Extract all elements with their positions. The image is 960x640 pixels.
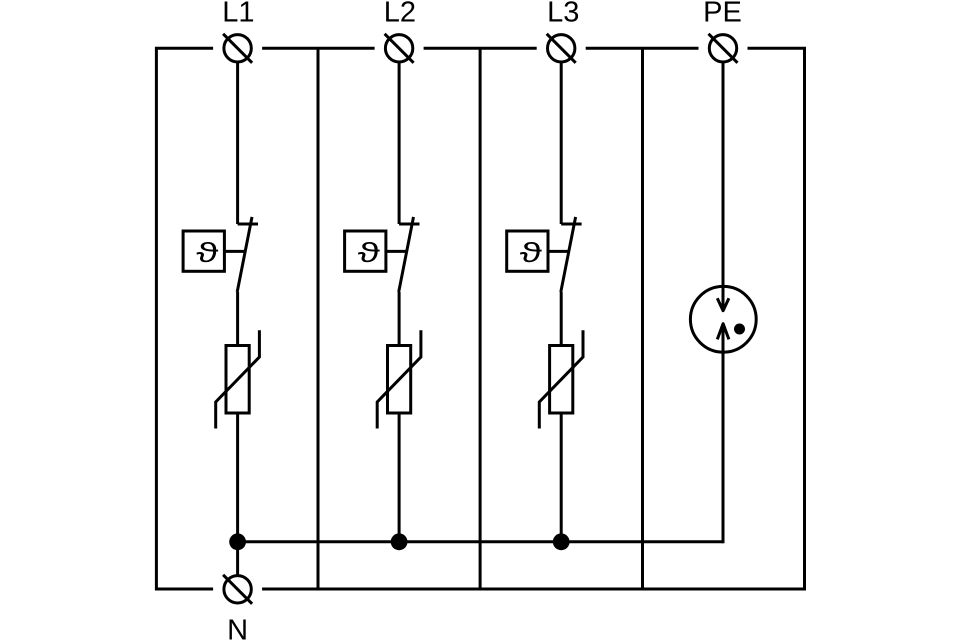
N bus wire <box>238 540 723 543</box>
svg-text:N: N <box>227 614 248 640</box>
wire N bus to N terminal <box>236 542 239 576</box>
thermal disconnector L3 <box>507 217 582 292</box>
enclosure outline (right side and bottom) <box>262 48 804 589</box>
enclosure outline top segment between L2 and L3 <box>424 47 537 50</box>
svg-text:L1: L1 <box>222 0 254 28</box>
thermal disconnector L2 <box>345 217 420 292</box>
wire L3 terminal to disconnector <box>560 62 563 224</box>
wire varistor L2 to N bus <box>398 413 401 542</box>
wire L2 terminal to disconnector <box>398 62 401 224</box>
svg-text:L2: L2 <box>384 0 416 28</box>
wire disconnector to varistor L2 <box>398 292 401 346</box>
svg-text:ϑ: ϑ <box>196 237 218 268</box>
wire spark gap to N bus <box>722 324 725 543</box>
internal divider between L3 and PE sections <box>641 48 644 589</box>
svg-text:ϑ: ϑ <box>358 237 380 268</box>
svg-text:ϑ: ϑ <box>520 237 542 268</box>
terminal L3 <box>547 34 576 63</box>
wire varistor L3 to N bus <box>560 413 563 542</box>
wire varistor L1 to N bus <box>236 413 239 542</box>
spark gap PE-N <box>690 286 756 352</box>
terminal L2 <box>385 34 414 63</box>
wire L1 terminal to disconnector <box>236 62 239 224</box>
junction L2 on N bus <box>391 533 408 550</box>
wire disconnector to varistor L3 <box>560 292 563 346</box>
varistor L3 <box>539 330 583 428</box>
wire PE terminal to spark gap <box>722 62 725 311</box>
thermal disconnector L1 <box>183 217 258 292</box>
internal divider between L1 and L2 sections <box>317 48 320 589</box>
svg-text:PE: PE <box>703 0 742 28</box>
terminal PE <box>709 34 738 63</box>
varistor L1 <box>216 330 260 428</box>
junction L1 on N bus <box>229 533 246 550</box>
enclosure outline top segment between L3 and PE <box>586 47 699 50</box>
terminal N <box>223 575 252 604</box>
wire disconnector to varistor L1 <box>236 292 239 346</box>
junction L3 on N bus <box>553 533 570 550</box>
internal divider between L2 and L3 sections <box>479 48 482 589</box>
terminal L1 <box>223 34 252 63</box>
svg-text:L3: L3 <box>547 0 579 28</box>
varistor L2 <box>377 330 421 428</box>
enclosure outline top segment between L1 and L2 <box>262 47 375 50</box>
enclosure outline (left side) <box>156 48 213 589</box>
